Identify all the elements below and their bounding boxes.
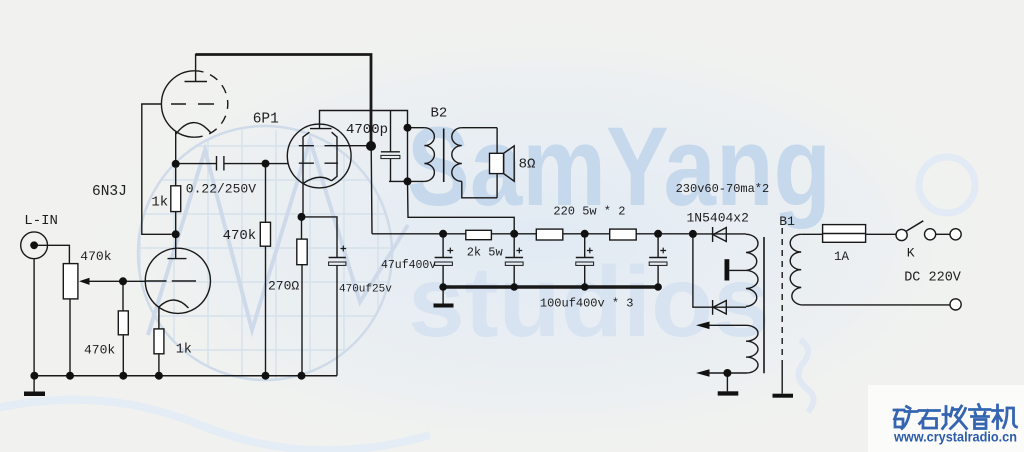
tube V1b grid dashes [146, 280, 196, 282]
resistor R3 1k upper leads [175, 168, 177, 234]
terminal bottom circle [950, 299, 961, 310]
svg-text:2k 5w: 2k 5w [467, 246, 504, 260]
wire: B2 top lead [408, 127, 425, 129]
wire: heater ground stem [726, 373, 728, 391]
wire: V2 plate lead to B2 [320, 111, 408, 129]
switch K lever [907, 221, 924, 231]
svg-text:DC 220V: DC 220V [904, 271, 962, 286]
transformer B1 primary winding [790, 234, 801, 305]
transformer B2 primary winding [424, 128, 434, 182]
svg-text:B1: B1 [779, 214, 795, 229]
B1 shield dashed [781, 228, 783, 365]
tube V1a cathode arc [176, 123, 211, 134]
wire: filter ground stem [442, 287, 444, 304]
node: rail c7 [654, 230, 662, 238]
svg-text:1k: 1k [176, 343, 192, 358]
switch K circle 1 [896, 229, 907, 240]
svg-text:L-IN: L-IN [24, 213, 58, 229]
wire: B+ node down to rail [370, 146, 373, 234]
resistor R5 470k body [260, 222, 270, 246]
node: rail b2 [510, 230, 518, 238]
watermark small ornament [798, 340, 813, 412]
svg-text:100uf400v * 3: 100uf400v * 3 [540, 297, 634, 311]
ground symbol heater [718, 391, 739, 395]
input jack L-IN [21, 232, 48, 259]
diode D2 1N5404 [712, 300, 714, 315]
node: V1a cathode [172, 160, 180, 168]
ground bus [33, 375, 337, 377]
B+ rail [372, 233, 693, 235]
wire: tube V1a cathode lead [175, 132, 177, 164]
char ji [993, 405, 1017, 429]
char shou [943, 406, 967, 429]
tube V1a envelope [161, 71, 194, 137]
transformer B2 core [443, 129, 445, 183]
wire: B2 bottom down to rail [408, 181, 515, 233]
tube V2 screen dashes [299, 145, 350, 147]
watermark globe grid [140, 130, 392, 380]
wire: thick feedback line tube1 plate to B+ node [196, 55, 371, 147]
potentiometer RP 470k body [63, 264, 78, 299]
wire: pot bottom to bus [69, 299, 71, 376]
wire: tube1 plate lead [195, 54, 197, 82]
resistor R7 2k5w body [466, 230, 492, 239]
node: rail 47uf [439, 230, 447, 238]
tube V1b envelope [145, 248, 210, 313]
tube V2 cathode arc [303, 177, 332, 183]
wire: rail to diode D1 [693, 233, 746, 235]
tube V2 6P1 envelope [287, 124, 351, 188]
wire: tube V1a grid to SRPP node [142, 104, 172, 234]
svg-text:470k: 470k [84, 343, 115, 358]
wire: grid node down to R5 [265, 164, 267, 223]
wire: R6 to bus [301, 265, 303, 376]
resistor R2 470k body [118, 311, 128, 335]
wire: SRPP node to tube V1b plate [175, 234, 177, 258]
capacitor C7 100uf400v [649, 234, 667, 287]
svg-text:8Ω: 8Ω [519, 157, 536, 173]
resistor R9 220 5w body [610, 229, 637, 240]
wire: speaker vertical [496, 128, 498, 198]
wire: primary bottom to terminal [801, 304, 950, 306]
wire: cathode node to C3 [302, 217, 338, 258]
logo chinese characters [894, 405, 1017, 429]
wire: jack to pot top [34, 245, 69, 263]
speaker box [490, 153, 504, 173]
wire: B2 secondary top to speaker [462, 127, 497, 129]
node: B2 top [404, 124, 412, 132]
wire: ground stem [33, 376, 35, 392]
wire: cap to 6P1 grid node [224, 163, 288, 165]
wire: jack shell to bus [33, 259, 35, 376]
wire: primary top to fuse [801, 233, 896, 235]
svg-text:1k: 1k [151, 195, 168, 211]
wire: heater top lead [709, 324, 746, 326]
terminal top circle [950, 229, 961, 240]
wire: R5 to bus [265, 246, 267, 376]
tube V2 grid dashes [299, 162, 338, 164]
diode D1 1N5404 [712, 227, 714, 242]
wire: wiper node down to R2 [122, 281, 124, 311]
wire: link [936, 233, 950, 235]
watermark globe circle [138, 126, 392, 380]
speaker horn [504, 146, 515, 181]
thick ground bus (filter) [443, 285, 658, 288]
watermark ring ornament [919, 157, 975, 213]
char yin [970, 405, 991, 429]
tube V2 beam plate right [332, 132, 338, 181]
capacitor C5 100uf400v [505, 234, 523, 287]
node: heater ground [723, 369, 731, 377]
wire: R4 to ground bus [158, 354, 160, 376]
svg-text:6N3J: 6N3J [92, 184, 127, 200]
wire: drop to diode D2 [693, 234, 746, 307]
tube V1a grid dashes [171, 103, 214, 105]
svg-text:270Ω: 270Ω [268, 279, 299, 294]
C3 plus sign [341, 246, 347, 252]
svg-text:47uf400v: 47uf400v [381, 259, 436, 272]
resistor R3 1k body [171, 186, 181, 212]
resistor R4 1k body [154, 329, 164, 354]
wire: B2 primary left bus [407, 128, 409, 182]
heater arrow top [696, 322, 710, 330]
tube V2 plate bar [310, 128, 332, 130]
transformer B1 HV winding [746, 234, 758, 306]
ground symbol shield [773, 394, 794, 398]
svg-text:K: K [907, 246, 915, 261]
svg-text:220 5w * 2: 220 5w * 2 [553, 205, 625, 219]
capacitor C4 47uf400v [435, 234, 453, 287]
node: rail diodes [689, 230, 697, 238]
tube V2 beam plate left and cathode lead [303, 132, 309, 217]
node: SRPP mid [172, 230, 180, 238]
resistor R8 220 5w body [536, 229, 563, 240]
transformer B2 secondary winding [452, 128, 462, 182]
wire: bus end up to 470uf [336, 266, 338, 376]
tube V1a plate bar [185, 81, 208, 83]
wire: tube V1b cathode lead [158, 306, 160, 329]
char shi [919, 411, 940, 429]
wire: pot wiper to grid [88, 280, 146, 282]
node: ground bus dots [30, 372, 38, 380]
svg-text:www.crystalradio.cn: www.crystalradio.cn [893, 430, 1017, 445]
ground symbol filter [434, 304, 454, 308]
node: B2 bottom [404, 177, 412, 185]
svg-text:470uf25v: 470uf25v [339, 284, 392, 296]
wire: V2 cathode node to 270R [301, 217, 303, 239]
capacitor C2 4700p plates [381, 151, 400, 153]
svg-text:0.22/250V: 0.22/250V [186, 182, 256, 197]
capacitor C3 470uf25v plates [329, 257, 346, 259]
wire: cathode node to coupling cap [176, 163, 217, 165]
B1 center tap wire [729, 269, 746, 271]
heater arrow bottom [696, 369, 710, 377]
svg-text:470k: 470k [80, 249, 111, 264]
pot wiper arrow [79, 278, 90, 285]
watermark waveform [148, 140, 408, 335]
node: wiper junction [119, 277, 127, 285]
ground symbol input [24, 392, 45, 397]
svg-text:B2: B2 [431, 106, 448, 122]
wire: B2 secondary bottom to speaker [462, 181, 497, 197]
wire: B2 bottom line [389, 180, 424, 182]
wire: heater bottom lead [709, 372, 746, 374]
resistor R6 270R body [297, 239, 307, 265]
svg-text:6P1: 6P1 [253, 112, 279, 128]
node: bus dots [439, 283, 447, 291]
tube V1b cathode arc [159, 300, 189, 308]
node: jack center [30, 241, 38, 249]
svg-text:1A: 1A [834, 250, 850, 264]
B1 center tap bar [725, 259, 730, 280]
wire: R2 to bus [122, 335, 124, 376]
svg-text:470k: 470k [223, 228, 257, 244]
switch K circle 2 [925, 229, 936, 240]
wire: screen to B+ node [349, 145, 371, 147]
svg-text:1N5404x2: 1N5404x2 [687, 211, 749, 226]
node: rail c6 [581, 230, 589, 238]
B1 heater winding [746, 325, 758, 373]
tube V1b plate bar [168, 258, 187, 260]
wire: C2 bottom lead [390, 159, 392, 182]
transformer B1 core [763, 237, 765, 373]
capacitor C1 0.22/250V plates [217, 156, 224, 171]
node: 6P1 cathode [298, 213, 306, 221]
svg-text:230v60-70ma*2: 230v60-70ma*2 [676, 182, 770, 196]
node: B+ screen [366, 141, 376, 151]
fuse F1 body [823, 225, 866, 243]
node: 6P1 grid [262, 160, 270, 168]
capacitor C6 100uf400v [576, 234, 594, 287]
watermark bottom-left swoosh [0, 400, 430, 451]
char kuang [894, 407, 917, 429]
svg-text:4700p: 4700p [346, 122, 388, 138]
capacitor C2 4700p lead top [390, 111, 392, 152]
